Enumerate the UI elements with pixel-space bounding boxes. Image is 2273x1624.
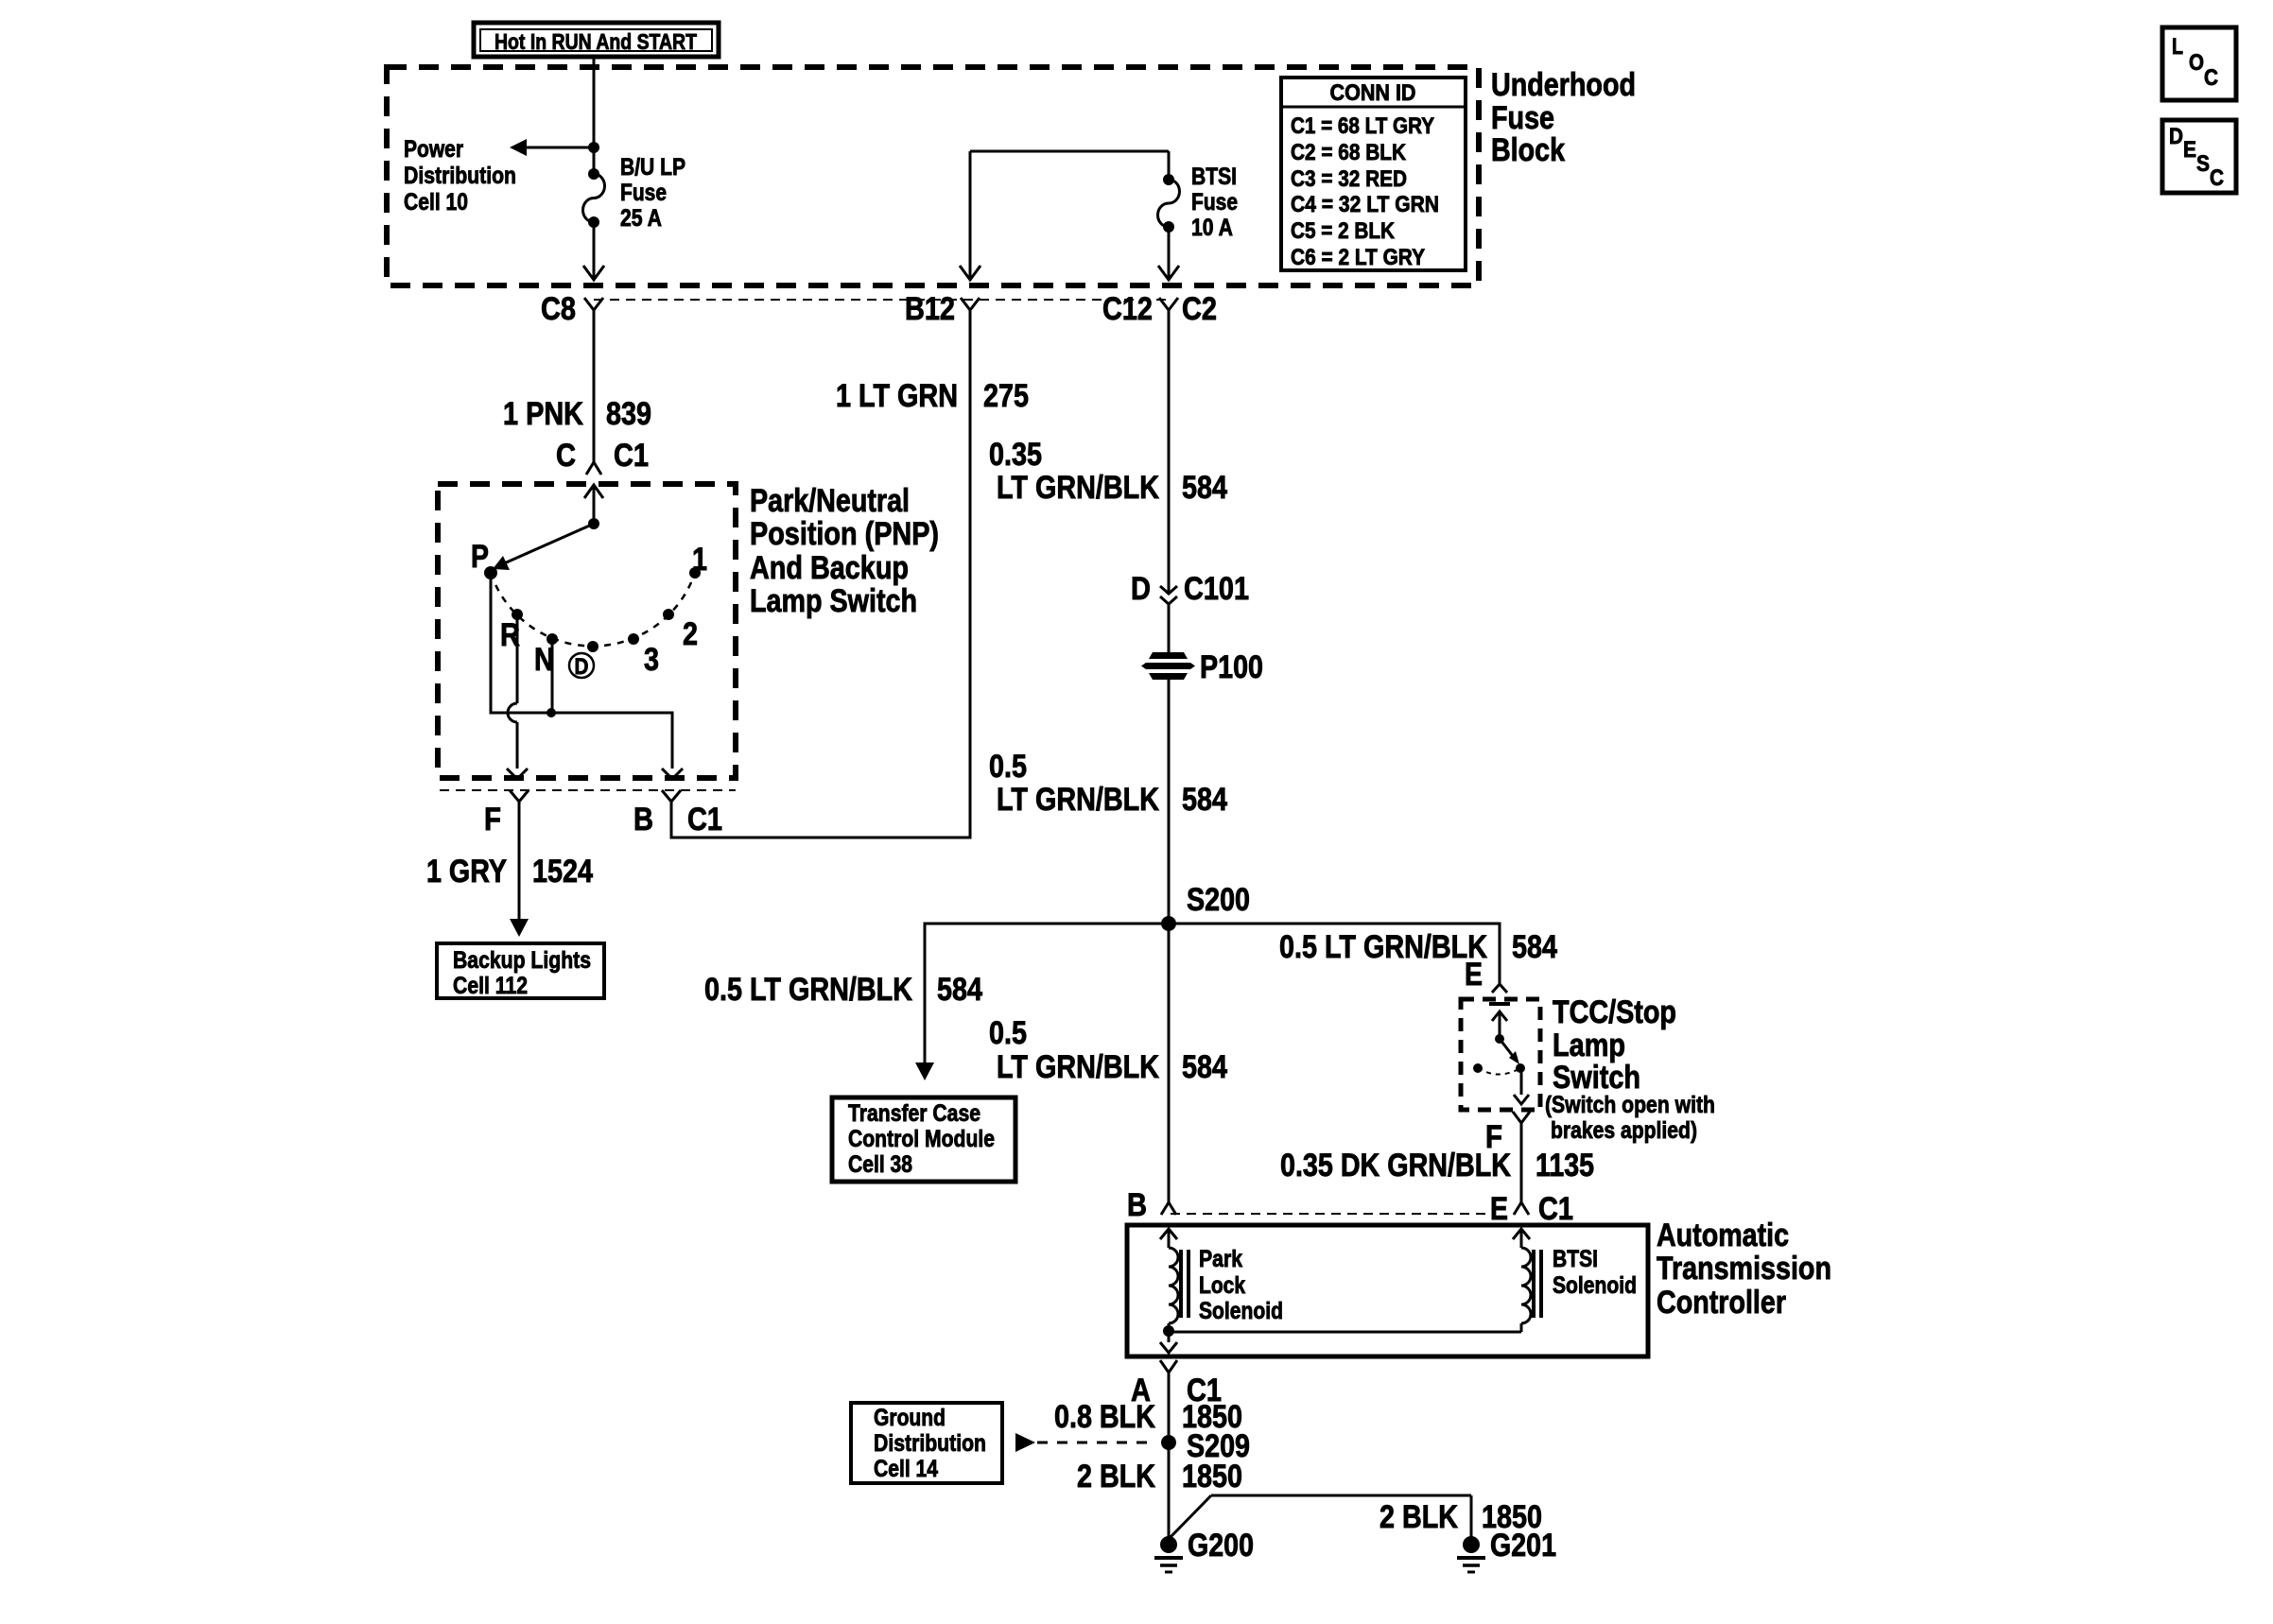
svg-text:Backup Lights: Backup Lights — [453, 947, 591, 974]
svg-text:3: 3 — [644, 642, 659, 678]
svg-text:O: O — [2189, 50, 2204, 76]
svg-text:TCC/Stop: TCC/Stop — [1553, 994, 1676, 1030]
svg-text:Cell 14: Cell 14 — [874, 1456, 938, 1482]
svg-text:Power: Power — [404, 136, 463, 163]
svg-text:1524: 1524 — [532, 854, 593, 890]
svg-text:C1: C1 — [1538, 1191, 1573, 1227]
svg-text:LT GRN/BLK: LT GRN/BLK — [997, 470, 1159, 506]
svg-text:C1: C1 — [687, 802, 722, 838]
svg-text:839: 839 — [606, 396, 651, 432]
svg-text:Fuse: Fuse — [620, 180, 667, 206]
svg-text:Fuse: Fuse — [1191, 189, 1238, 216]
svg-text:584: 584 — [1512, 929, 1557, 965]
svg-text:C5 = 2 BLK: C5 = 2 BLK — [1291, 218, 1396, 244]
svg-text:Lamp Switch: Lamp Switch — [750, 583, 917, 619]
svg-text:2 BLK: 2 BLK — [1379, 1499, 1458, 1535]
svg-text:C6 = 2 LT GRY: C6 = 2 LT GRY — [1291, 245, 1425, 270]
svg-text:E: E — [1490, 1191, 1508, 1227]
svg-text:Switch: Switch — [1553, 1060, 1640, 1096]
svg-text:C2: C2 — [1182, 291, 1217, 327]
svg-text:Cell 112: Cell 112 — [453, 973, 528, 999]
svg-text:C: C — [556, 438, 576, 474]
svg-text:L: L — [2172, 34, 2183, 60]
svg-text:Distribution: Distribution — [404, 163, 516, 189]
svg-text:D: D — [575, 654, 589, 680]
svg-text:584: 584 — [1182, 470, 1227, 506]
svg-text:0.5: 0.5 — [989, 749, 1027, 785]
svg-text:BTSI: BTSI — [1553, 1246, 1598, 1272]
svg-text:1 GRY: 1 GRY — [426, 854, 507, 890]
svg-text:1: 1 — [692, 542, 707, 578]
svg-text:Park/Neutral: Park/Neutral — [750, 483, 910, 519]
svg-text:Control Module: Control Module — [848, 1126, 995, 1152]
svg-text:1 LT GRN: 1 LT GRN — [836, 378, 958, 414]
svg-text:S: S — [2196, 151, 2210, 177]
svg-text:0.5 LT GRN/BLK: 0.5 LT GRN/BLK — [704, 972, 912, 1008]
svg-text:Lamp: Lamp — [1553, 1028, 1625, 1063]
svg-text:Block: Block — [1491, 132, 1565, 168]
svg-text:Position (PNP): Position (PNP) — [750, 516, 939, 552]
svg-text:P: P — [471, 539, 489, 575]
svg-text:584: 584 — [1182, 1049, 1227, 1085]
svg-text:B: B — [633, 802, 653, 838]
svg-text:Transfer Case: Transfer Case — [848, 1100, 980, 1127]
svg-text:BTSI: BTSI — [1191, 164, 1237, 190]
svg-text:Automatic: Automatic — [1657, 1218, 1789, 1253]
svg-text:Controller: Controller — [1657, 1285, 1786, 1321]
svg-text:0.35: 0.35 — [989, 437, 1042, 473]
svg-text:C3 = 32 RED: C3 = 32 RED — [1291, 166, 1407, 192]
svg-text:C1 = 68 LT GRY: C1 = 68 LT GRY — [1291, 113, 1434, 139]
svg-text:CONN ID: CONN ID — [1330, 80, 1416, 106]
svg-text:Hot In RUN And START: Hot In RUN And START — [495, 29, 697, 54]
svg-text:C8: C8 — [541, 291, 576, 327]
svg-text:1 PNK: 1 PNK — [503, 396, 583, 432]
svg-text:10 A: 10 A — [1191, 215, 1233, 241]
svg-text:0.5 LT GRN/BLK: 0.5 LT GRN/BLK — [1279, 929, 1487, 965]
svg-text:E: E — [1465, 957, 1483, 993]
svg-text:E: E — [2183, 137, 2196, 163]
svg-text:LT GRN/BLK: LT GRN/BLK — [997, 782, 1159, 818]
svg-text:brakes applied): brakes applied) — [1551, 1117, 1697, 1144]
svg-text:Cell 10: Cell 10 — [404, 189, 468, 216]
svg-text:C: C — [2204, 65, 2218, 91]
svg-text:584: 584 — [1182, 782, 1227, 818]
svg-text:Transmission: Transmission — [1657, 1251, 1831, 1287]
svg-text:Distribution: Distribution — [874, 1430, 986, 1457]
svg-text:Solenoid: Solenoid — [1553, 1272, 1637, 1299]
svg-text:S200: S200 — [1187, 882, 1250, 918]
svg-text:D: D — [1131, 571, 1151, 607]
svg-text:D: D — [2169, 124, 2183, 149]
svg-text:C4 = 32 LT GRN: C4 = 32 LT GRN — [1291, 192, 1439, 217]
svg-text:(Switch open with: (Switch open with — [1545, 1092, 1715, 1118]
svg-text:C2 = 68 BLK: C2 = 68 BLK — [1291, 140, 1407, 165]
svg-text:G201: G201 — [1490, 1528, 1556, 1564]
svg-text:C: C — [2210, 165, 2224, 191]
svg-text:275: 275 — [983, 378, 1029, 414]
svg-text:2 BLK: 2 BLK — [1077, 1459, 1155, 1494]
svg-text:0.5: 0.5 — [989, 1015, 1027, 1051]
svg-text:C1: C1 — [614, 438, 649, 474]
svg-text:G200: G200 — [1188, 1528, 1254, 1564]
svg-text:25 A: 25 A — [620, 205, 662, 232]
svg-text:0.35 DK GRN/BLK: 0.35 DK GRN/BLK — [1280, 1148, 1511, 1183]
svg-text:584: 584 — [937, 972, 982, 1008]
svg-text:B/U LP: B/U LP — [620, 154, 685, 181]
svg-text:B12: B12 — [905, 291, 955, 327]
svg-text:C12: C12 — [1102, 291, 1153, 327]
svg-text:B: B — [1127, 1187, 1147, 1223]
svg-text:LT GRN/BLK: LT GRN/BLK — [997, 1049, 1159, 1085]
svg-text:C101: C101 — [1184, 571, 1249, 607]
svg-text:2: 2 — [683, 616, 698, 652]
svg-text:Solenoid: Solenoid — [1199, 1298, 1283, 1324]
svg-text:1850: 1850 — [1182, 1459, 1242, 1494]
svg-text:Fuse: Fuse — [1491, 100, 1554, 136]
svg-text:1135: 1135 — [1536, 1148, 1594, 1183]
svg-text:Cell 38: Cell 38 — [848, 1151, 912, 1178]
svg-text:F: F — [484, 802, 501, 838]
svg-text:P100: P100 — [1200, 649, 1263, 685]
svg-text:Underhood: Underhood — [1491, 67, 1636, 103]
svg-text:Lock: Lock — [1199, 1272, 1245, 1299]
svg-text:And Backup: And Backup — [750, 550, 909, 586]
svg-text:Park: Park — [1199, 1246, 1242, 1272]
svg-text:0.8 BLK: 0.8 BLK — [1054, 1399, 1155, 1435]
svg-text:Ground: Ground — [874, 1405, 946, 1431]
